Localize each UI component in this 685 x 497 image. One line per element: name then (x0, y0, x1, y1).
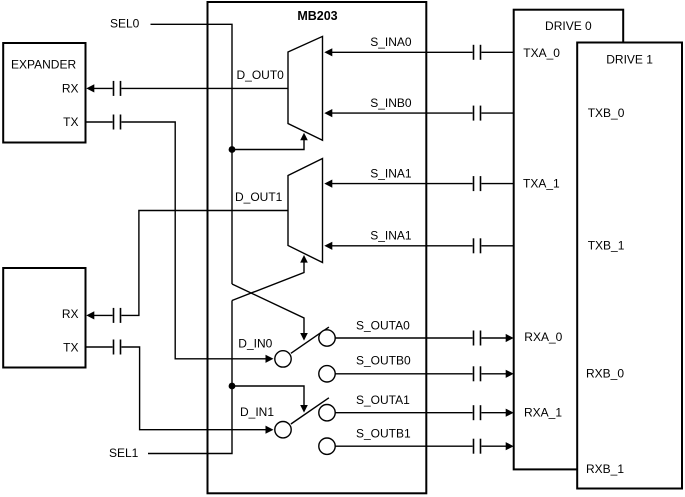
svg-text:RXB_0: RXB_0 (586, 367, 624, 381)
wire SEL1 (148, 301, 232, 454)
capacitor C8 (473, 238, 475, 253)
svg-text:RXB_1: RXB_1 (586, 462, 624, 476)
wire SEL0 diagonal to switch S1 control (232, 284, 304, 334)
svg-text:S_INB0: S_INB0 (370, 96, 412, 110)
wire SEL1 diagonal to mux U2 select (232, 262, 304, 300)
wire S_INA0 row (332, 51, 473, 53)
wire EXPANDER TX to D_IN0 (86, 121, 113, 123)
svg-text:TXB_1: TXB_1 (588, 238, 625, 252)
wire S_OUTB1 row (335, 445, 472, 447)
capacitor C10 (473, 366, 475, 381)
svg-text:D_IN1: D_IN1 (240, 405, 274, 419)
svg-text:RXA_1: RXA_1 (524, 405, 562, 419)
switch S1 D_IN0 (291, 327, 329, 353)
capacitor C12 (473, 439, 475, 454)
wire S_OUTB0 row (335, 373, 472, 375)
capacitor C3 (113, 308, 115, 323)
wire D_OUT0 to EXPANDER RX (94, 87, 113, 89)
svg-text:SEL0: SEL0 (110, 17, 140, 31)
capacitor C9 (473, 331, 475, 346)
switch S2 D_IN1 (291, 398, 329, 424)
wire S_OUTA1 row (335, 412, 472, 414)
svg-text:DRIVE 0: DRIVE 0 (545, 19, 592, 33)
wire SEL1 to switch S2 control (232, 386, 304, 406)
capacitor C2 (113, 115, 115, 130)
svg-text:S_OUTB1: S_OUTB1 (356, 427, 411, 441)
svg-text:TX: TX (63, 340, 78, 354)
wire S_OUTA0 row (335, 337, 472, 339)
box MB203 (208, 2, 427, 493)
svg-text:S_INA0: S_INA0 (370, 35, 412, 49)
capacitor C7 (473, 176, 475, 191)
box EXPANDER (3, 43, 85, 143)
svg-text:TXB_0: TXB_0 (588, 106, 625, 120)
node SEL1 junction dot (229, 383, 236, 390)
wire S_INB0 row (332, 112, 473, 114)
svg-text:D_OUT1: D_OUT1 (235, 190, 283, 204)
mux U1 (288, 36, 323, 140)
box DRIVE 0 (514, 10, 624, 470)
svg-text:S_INA1: S_INA1 (370, 167, 412, 181)
capacitor C5 (473, 45, 475, 60)
wire SEL0 to mux U1 select (232, 140, 304, 150)
svg-text:D_OUT0: D_OUT0 (237, 68, 285, 82)
svg-text:D_IN0: D_IN0 (238, 337, 272, 351)
svg-text:EXPANDER: EXPANDER (11, 58, 76, 72)
node SEL0 junction dot (229, 146, 236, 153)
box DRIVE 1 (577, 43, 682, 489)
svg-text:MB203: MB203 (297, 9, 337, 23)
svg-text:RX: RX (62, 307, 79, 321)
svg-text:S_INA1: S_INA1 (370, 229, 412, 243)
svg-text:TXA_1: TXA_1 (523, 177, 560, 191)
svg-text:TXA_0: TXA_0 (523, 46, 560, 60)
wire lower TX to D_IN1 (86, 346, 113, 348)
svg-text:RXA_0: RXA_0 (524, 330, 562, 344)
svg-text:TX: TX (63, 115, 78, 129)
wire SEL0 (151, 24, 233, 284)
svg-text:SEL1: SEL1 (109, 446, 139, 460)
svg-text:S_OUTA1: S_OUTA1 (356, 393, 410, 407)
capacitor C4 (113, 340, 115, 355)
wire D_OUT1 to lower RX (94, 314, 113, 316)
mux U2 (288, 159, 323, 263)
box lower-left (3, 268, 85, 368)
svg-text:DRIVE 1: DRIVE 1 (606, 53, 653, 67)
capacitor C11 (473, 405, 475, 420)
capacitor C1 (113, 81, 115, 96)
svg-text:S_OUTA0: S_OUTA0 (356, 319, 410, 333)
wire S_INA1 second row (332, 245, 473, 247)
svg-text:RX: RX (62, 81, 79, 95)
svg-text:S_OUTB0: S_OUTB0 (356, 354, 411, 368)
capacitor C6 (473, 106, 475, 121)
wire S_INA1 row (332, 183, 473, 185)
